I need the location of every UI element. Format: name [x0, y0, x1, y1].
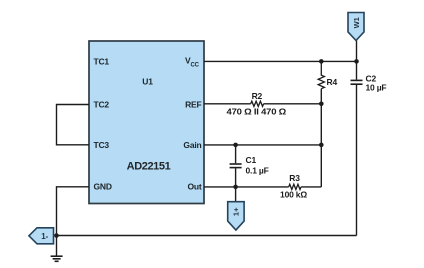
wire right vertical C2 to bottom rail: [356, 85, 358, 236]
node Out/C1/1+: [233, 185, 238, 190]
node Gain/mid vertical: [319, 143, 324, 148]
svg-text:0.1 µF: 0.1 µF: [246, 165, 269, 175]
ground: [51, 236, 63, 262]
node Gain/C1: [233, 143, 238, 148]
wire mid vertical REF to Out: [320, 89, 322, 187]
svg-text:1-: 1-: [41, 232, 48, 241]
node REF/R4: [319, 102, 324, 107]
chip U1 body: [89, 41, 204, 204]
svg-text:AD22151: AD22151: [127, 161, 171, 173]
connector W1: [348, 13, 364, 62]
connector 1-: [29, 228, 54, 244]
resistor R4: [318, 61, 324, 88]
svg-text:W1: W1: [352, 17, 361, 28]
svg-text:C1: C1: [246, 155, 257, 165]
capacitor C1: [230, 145, 242, 187]
svg-text:10 µF: 10 µF: [366, 83, 387, 93]
wire REF right segment: [264, 103, 322, 105]
svg-text:R3: R3: [289, 173, 300, 183]
node VCC/W1/C2: [354, 59, 359, 64]
svg-text:100 kΩ: 100 kΩ: [280, 190, 307, 200]
svg-text:TC1: TC1: [94, 56, 110, 66]
svg-text:Out: Out: [187, 182, 201, 192]
svg-text:GND: GND: [94, 182, 112, 192]
svg-text:REF: REF: [185, 99, 201, 109]
wire VCC rail: [204, 60, 357, 62]
wire TC2-TC3 loop: [57, 105, 90, 145]
svg-text:Gain: Gain: [183, 140, 201, 150]
wire Out left segment: [204, 186, 289, 188]
svg-text:470 Ω II 470 Ω: 470 Ω II 470 Ω: [227, 106, 287, 116]
resistor R2: [251, 101, 264, 106]
wire Out right segment: [301, 186, 321, 188]
svg-text:R4: R4: [327, 77, 338, 87]
capacitor C2: [351, 61, 363, 84]
connector 1+: [228, 187, 244, 230]
resistor R3: [289, 184, 301, 189]
svg-text:TC3: TC3: [94, 140, 110, 150]
svg-text:TC2: TC2: [94, 99, 110, 109]
node VCC/R4: [319, 59, 324, 64]
wire GND left and down to node: [57, 187, 90, 236]
svg-text:R2: R2: [252, 91, 263, 101]
wire REF left segment: [204, 103, 251, 105]
svg-text:U1: U1: [142, 77, 153, 87]
node GND/1-/ground: [54, 233, 59, 238]
svg-text:1+: 1+: [232, 207, 241, 216]
wire Gain line: [204, 144, 321, 146]
wire bottom rail: [57, 235, 357, 237]
